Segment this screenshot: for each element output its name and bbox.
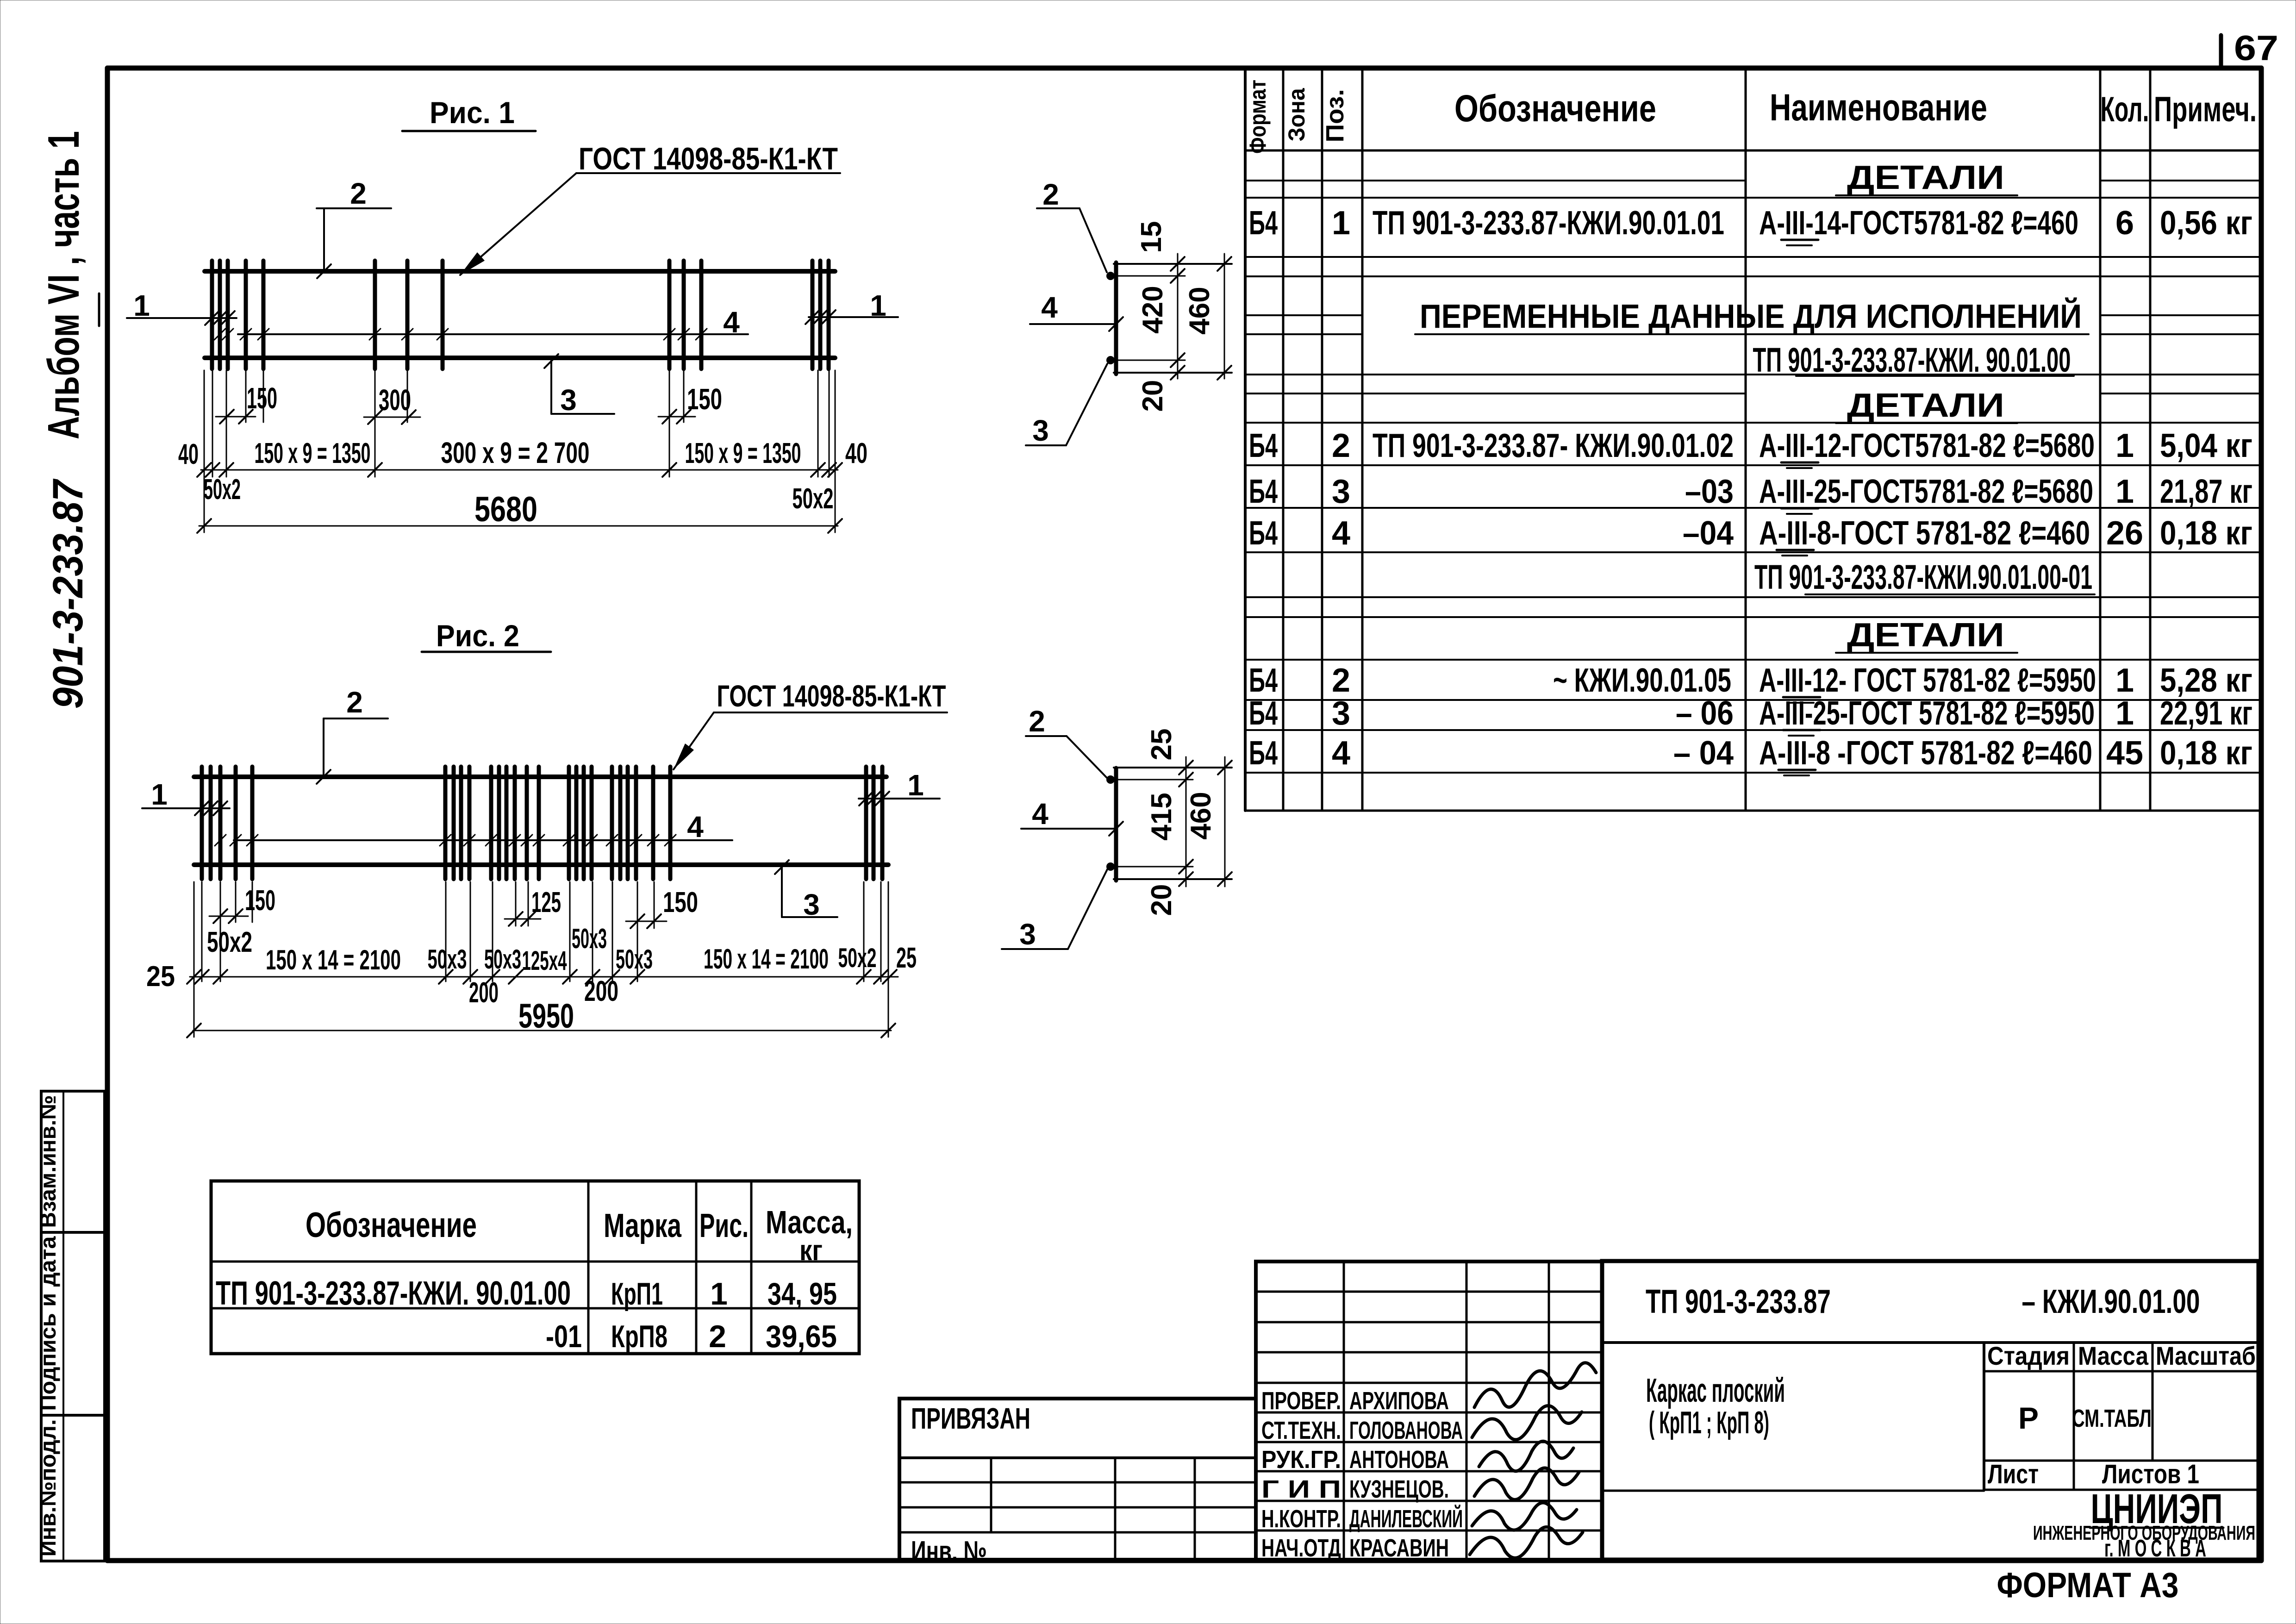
svg-text:1: 1: [2115, 427, 2134, 464]
svg-text:ТП 901-3-233.87-КЖИ.90.01.00-0: ТП 901-3-233.87-КЖИ.90.01.00-01: [1754, 558, 2092, 596]
svg-text:4: 4: [1332, 515, 1350, 552]
svg-text:А-III-25-ГОСТ 5781-82 ℓ=5950: А-III-25-ГОСТ 5781-82 ℓ=5950: [1759, 695, 2095, 732]
svg-text:ПЕРЕМЕННЫЕ ДАННЫЕ ДЛЯ ИС: ПЕРЕМЕННЫЕ ДАННЫЕ ДЛЯ ИСПОЛНЕНИЙ: [1420, 297, 2082, 335]
svg-text:Г И П: Г И П: [1261, 1475, 1341, 1503]
svg-text:ГОСТ 14098-85-К1-КТ: ГОСТ 14098-85-К1-КТ: [579, 141, 838, 176]
svg-text:ГОСТ 14098-85-К1-КТ: ГОСТ 14098-85-К1-КТ: [717, 679, 946, 713]
svg-text:6: 6: [2115, 205, 2134, 242]
svg-text:1: 1: [710, 1276, 728, 1312]
svg-text:Обозначение: Обозначение: [1454, 87, 1656, 130]
svg-text:ФОРМАТ А3: ФОРМАТ А3: [1997, 1566, 2179, 1605]
svg-text:ТП 901-3-233.87: ТП 901-3-233.87: [1646, 1283, 1831, 1320]
svg-text:– КЖИ.90.01.00: – КЖИ.90.01.00: [2022, 1283, 2200, 1320]
svg-text:1: 1: [2115, 473, 2134, 510]
svg-text:–03: –03: [1685, 473, 1734, 510]
svg-text:ДЕТАЛИ: ДЕТАЛИ: [1847, 159, 2004, 196]
svg-text:КрП1: КрП1: [611, 1276, 663, 1312]
svg-text:Н.КОНТР.: Н.КОНТР.: [1261, 1505, 1341, 1533]
svg-text:Формат: Формат: [1245, 80, 1271, 154]
svg-text:ПРИВЯЗАН: ПРИВЯЗАН: [911, 1402, 1030, 1435]
svg-text:Б4: Б4: [1249, 427, 1278, 464]
svg-text:2: 2: [709, 1319, 726, 1354]
svg-text:3: 3: [1332, 473, 1350, 510]
svg-text:5,04 кг: 5,04 кг: [2160, 427, 2252, 464]
svg-text:1: 1: [1332, 205, 1350, 242]
svg-text:4: 4: [1032, 797, 1048, 831]
svg-text:ТП 901-3-233.87-КЖИ.90.01.01: ТП 901-3-233.87-КЖИ.90.01.01: [1373, 205, 1724, 242]
svg-text:Стадия: Стадия: [1987, 1341, 2070, 1370]
svg-text:1: 1: [2115, 695, 2134, 732]
svg-text:Зона: Зона: [1284, 87, 1310, 141]
svg-text:ТП 901-3-233.87-КЖИ. 90.01.00: ТП 901-3-233.87-КЖИ. 90.01.00: [1753, 341, 2071, 379]
svg-text:Наименование: Наименование: [1770, 87, 1987, 129]
svg-text:2: 2: [1332, 427, 1350, 464]
svg-text:КРАСАВИН: КРАСАВИН: [1349, 1534, 1449, 1562]
svg-text:21,87 кг: 21,87 кг: [2160, 473, 2252, 510]
svg-text:Альбом VI , часть 1: Альбом VI , часть 1: [39, 131, 88, 439]
svg-text:Б4: Б4: [1249, 515, 1278, 552]
svg-text:39,65: 39,65: [766, 1319, 837, 1354]
svg-text:-01: -01: [546, 1319, 582, 1354]
svg-text:40: 40: [178, 438, 199, 470]
svg-text:3: 3: [1019, 918, 1036, 951]
svg-text:22,91 кг: 22,91 кг: [2160, 695, 2252, 732]
svg-text:Подпись и дата: Подпись и дата: [36, 1236, 61, 1411]
svg-text:Кол.: Кол.: [2101, 90, 2149, 129]
svg-text:Обозначение: Обозначение: [306, 1206, 477, 1245]
svg-text:200: 200: [584, 975, 618, 1007]
svg-text:Поз.: Поз.: [1321, 89, 1349, 143]
svg-text:300 x 9 = 2 700: 300 x 9 = 2 700: [441, 436, 590, 469]
svg-text:АНТОНОВА: АНТОНОВА: [1349, 1446, 1449, 1474]
svg-text:Листов 1: Листов 1: [2102, 1459, 2199, 1489]
svg-text:1: 1: [2115, 662, 2134, 699]
svg-text:АРХИПОВА: АРХИПОВА: [1349, 1387, 1449, 1415]
svg-text:кг: кг: [799, 1235, 823, 1267]
svg-text:Масса: Масса: [2078, 1341, 2149, 1370]
svg-text:50x2: 50x2: [207, 926, 252, 958]
svg-text:5680: 5680: [474, 490, 537, 529]
svg-text:Рис. 1: Рис. 1: [430, 95, 515, 130]
svg-text:5,28 кг: 5,28 кг: [2160, 662, 2252, 699]
svg-text:Марка: Марка: [604, 1207, 682, 1244]
svg-text:25: 25: [896, 942, 917, 974]
svg-text:( КрП1 ; КрП 8): ( КрП1 ; КрП 8): [1649, 1405, 1769, 1440]
svg-text:5950: 5950: [518, 997, 574, 1035]
svg-text:50x3: 50x3: [616, 944, 653, 974]
svg-text:4: 4: [1332, 735, 1350, 772]
svg-text:ДЕТАЛИ: ДЕТАЛИ: [1847, 387, 2004, 424]
svg-text:150: 150: [247, 381, 277, 415]
svg-text:Б4: Б4: [1249, 473, 1278, 510]
svg-text:КУЗНЕЦОВ.: КУЗНЕЦОВ.: [1349, 1475, 1449, 1503]
svg-text:ПРОВЕР.: ПРОВЕР.: [1261, 1387, 1341, 1415]
svg-text:2: 2: [1042, 178, 1059, 211]
svg-text:СМ.ТАБЛ: СМ.ТАБЛ: [2072, 1405, 2152, 1432]
svg-text:25: 25: [146, 961, 175, 993]
svg-text:150 x 14 = 2100: 150 x 14 = 2100: [704, 943, 829, 974]
svg-text:Б4: Б4: [1249, 695, 1278, 732]
svg-text:415: 415: [1146, 793, 1178, 840]
svg-text:–04: –04: [1683, 515, 1734, 552]
svg-text:Примеч.: Примеч.: [2154, 90, 2257, 129]
svg-text:4: 4: [687, 810, 704, 843]
svg-text:ТП 901-3-233.87- КЖИ.90.01.02: ТП 901-3-233.87- КЖИ.90.01.02: [1373, 427, 1734, 464]
svg-text:2: 2: [350, 177, 367, 210]
svg-text:НАЧ.ОТД: НАЧ.ОТД: [1261, 1534, 1341, 1562]
svg-text:34, 95: 34, 95: [767, 1276, 837, 1312]
svg-text:Инв. №: Инв. №: [911, 1536, 987, 1568]
svg-text:50x2: 50x2: [792, 483, 834, 515]
svg-text:901-3-233.87: 901-3-233.87: [44, 479, 92, 709]
svg-text:ДЕТАЛИ: ДЕТАЛИ: [1847, 617, 2004, 654]
svg-text:200: 200: [469, 977, 499, 1009]
svg-text:40: 40: [845, 437, 867, 469]
svg-text:ТП 901-3-233.87-КЖИ. 90.01.00: ТП 901-3-233.87-КЖИ. 90.01.00: [216, 1275, 571, 1312]
svg-text:150 x 9 = 1350: 150 x 9 = 1350: [255, 437, 371, 469]
svg-text:50x2: 50x2: [838, 943, 877, 973]
svg-text:Рис.: Рис.: [699, 1207, 749, 1244]
svg-text:1: 1: [151, 778, 168, 811]
svg-text:125: 125: [531, 887, 561, 918]
svg-text:А-III-8-ГОСТ 5781-82 ℓ=460: А-III-8-ГОСТ 5781-82 ℓ=460: [1759, 515, 2090, 552]
svg-text:СТ.ТЕХН.: СТ.ТЕХН.: [1261, 1417, 1341, 1444]
svg-text:150: 150: [663, 887, 698, 918]
svg-text:3: 3: [560, 383, 577, 417]
svg-text:Рис. 2: Рис. 2: [436, 618, 519, 653]
svg-text:ГОЛОВАНОВА: ГОЛОВАНОВА: [1349, 1417, 1463, 1444]
svg-text:Б4: Б4: [1249, 662, 1278, 699]
svg-text:КрП8: КрП8: [611, 1319, 668, 1354]
svg-text:67: 67: [2234, 29, 2278, 68]
svg-text:25: 25: [1146, 729, 1178, 761]
svg-text:Б4: Б4: [1249, 735, 1278, 772]
svg-text:А-III-12-ГОСТ5781-82 ℓ=5680: А-III-12-ГОСТ5781-82 ℓ=5680: [1759, 427, 2095, 464]
svg-text:0,18 кг: 0,18 кг: [2160, 515, 2252, 552]
svg-text:460: 460: [1184, 287, 1216, 334]
svg-text:420: 420: [1137, 286, 1169, 333]
svg-text:А-III-12- ГОСТ 5781-82 ℓ=5950: А-III-12- ГОСТ 5781-82 ℓ=5950: [1759, 662, 2096, 699]
svg-text:г. М О С К В А: г. М О С К В А: [2104, 1535, 2206, 1562]
svg-text:50x3: 50x3: [484, 944, 521, 974]
svg-text:150 x 14 = 2100: 150 x 14 = 2100: [266, 944, 401, 975]
svg-text:1: 1: [870, 289, 886, 322]
svg-text:0,56 кг: 0,56 кг: [2160, 205, 2252, 242]
svg-text:20: 20: [1137, 380, 1169, 412]
svg-text:1: 1: [907, 768, 924, 802]
svg-text:15: 15: [1136, 221, 1167, 253]
svg-text:3: 3: [1332, 695, 1350, 732]
svg-text:50x3: 50x3: [572, 923, 607, 954]
svg-text:Р: Р: [2018, 1401, 2039, 1435]
svg-text:3: 3: [803, 888, 820, 921]
svg-text:45: 45: [2106, 735, 2143, 772]
svg-text:3: 3: [1032, 414, 1049, 447]
svg-text:1: 1: [133, 289, 150, 322]
svg-text:Лист: Лист: [1988, 1459, 2039, 1489]
svg-text:Масштаб: Масштаб: [2156, 1341, 2256, 1370]
svg-text:А-III-25-ГОСТ5781-82 ℓ=5680: А-III-25-ГОСТ5781-82 ℓ=5680: [1759, 473, 2093, 510]
svg-text:0,18 кг: 0,18 кг: [2160, 735, 2252, 772]
svg-text:2: 2: [1029, 705, 1045, 738]
svg-text:2: 2: [346, 686, 363, 719]
svg-text:Б4: Б4: [1249, 205, 1278, 242]
svg-text:150: 150: [687, 382, 722, 416]
svg-text:– 06: – 06: [1676, 695, 1734, 732]
svg-text:ДАНИЛЕВСКИЙ: ДАНИЛЕВСКИЙ: [1349, 1505, 1463, 1533]
svg-text:Каркас плоский: Каркас плоский: [1646, 1372, 1785, 1409]
svg-text:300: 300: [379, 383, 411, 417]
svg-text:А-III-14-ГОСТ5781-82 ℓ=460: А-III-14-ГОСТ5781-82 ℓ=460: [1759, 205, 2078, 242]
svg-text:26: 26: [2106, 515, 2143, 552]
svg-text:Инв.№подл.: Инв.№подл.: [36, 1419, 61, 1557]
svg-text:50x2: 50x2: [204, 474, 241, 506]
svg-text:~ КЖИ.90.01.05: ~ КЖИ.90.01.05: [1553, 662, 1731, 699]
svg-text:460: 460: [1185, 792, 1217, 839]
svg-text:– 04: – 04: [1673, 735, 1734, 772]
svg-text:А-III-8 -ГОСТ 5781-82 ℓ=460: А-III-8 -ГОСТ 5781-82 ℓ=460: [1759, 735, 2092, 772]
svg-text:125x4: 125x4: [522, 946, 567, 976]
svg-text:4: 4: [1041, 291, 1058, 324]
svg-text:20: 20: [1146, 884, 1178, 916]
svg-text:РУК.ГР.: РУК.ГР.: [1261, 1446, 1341, 1474]
svg-text:150: 150: [245, 885, 275, 917]
svg-text:2: 2: [1332, 662, 1350, 699]
svg-text:4: 4: [723, 306, 740, 339]
svg-text:150 x 9 = 1350: 150 x 9 = 1350: [685, 437, 801, 469]
svg-text:Взам.инв.№: Взам.инв.№: [36, 1095, 61, 1228]
svg-text:50x3: 50x3: [428, 944, 467, 974]
